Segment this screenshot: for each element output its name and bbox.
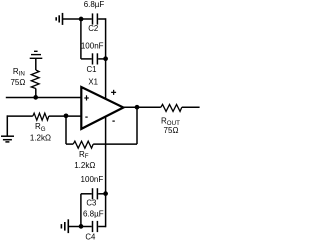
ground (top left, sideways)	[56, 13, 62, 25]
wire: positive supply stub to op-amp	[105, 59, 107, 99]
node: input junction at R_IN	[33, 95, 38, 100]
svg-text:100nF: 100nF	[81, 175, 104, 184]
wire: C3 right lead	[98, 193, 105, 195]
op-amp + supply marker	[111, 90, 116, 95]
ground (bottom left, sideways)	[61, 219, 68, 233]
wire: bottom ground to node	[68, 226, 81, 228]
svg-text:C4: C4	[85, 232, 96, 241]
wire: left rail C3 to C4	[80, 194, 82, 227]
wire: C4 right lead	[98, 226, 105, 228]
ground (above R_IN)	[30, 51, 43, 58]
resistor R_F (1.2k feedback)	[73, 141, 93, 148]
node: negative supply junction	[103, 191, 108, 196]
wire: feedback left lead	[66, 143, 73, 145]
wire: R_G to op-amp - input	[49, 115, 82, 117]
svg-text:1.2kΩ: 1.2kΩ	[74, 161, 95, 170]
node: output junction	[135, 105, 140, 110]
wire: op-amp output	[123, 106, 161, 108]
node: inverting input junction	[64, 113, 69, 118]
svg-text:75Ω: 75Ω	[164, 126, 179, 135]
wire: right rail C3 to C4	[105, 194, 107, 227]
wire: inverting input line left segment	[7, 115, 33, 117]
wire: top ground to V+ node	[63, 18, 82, 20]
wire: C1 left lead	[81, 58, 92, 60]
svg-text:6.8µF: 6.8µF	[83, 209, 104, 218]
svg-text:C2: C2	[88, 24, 98, 33]
wire: input line to op-amp + input	[6, 97, 82, 99]
wire: ground to R_IN	[35, 58, 37, 70]
node: bottom ground junction	[79, 224, 84, 229]
node: positive supply junction	[103, 56, 108, 61]
capacitor C4 plates	[93, 221, 98, 232]
ground (below R_G)	[1, 136, 14, 142]
wire: C1 right lead	[98, 58, 105, 60]
wire: C2 right lead	[98, 18, 105, 20]
svg-text:1.2kΩ: 1.2kΩ	[30, 134, 51, 143]
wire: left rail C2 to C1	[80, 19, 82, 59]
wire: drop to ground below R_G	[6, 115, 8, 136]
op-amp + input marker	[84, 95, 89, 100]
resistor R_IN (vertical 75 ohm)	[31, 70, 39, 89]
wire: feedback right segment to output drop	[93, 143, 137, 145]
wire: inverting node down to feedback	[65, 116, 67, 144]
wire: R_OUT to output terminal	[182, 106, 200, 108]
capacitor C2 plates	[93, 13, 98, 24]
op-amp - supply marker	[112, 120, 114, 122]
resistor R_OUT (75 ohm)	[161, 104, 182, 111]
svg-text:100nF: 100nF	[81, 42, 104, 51]
wire: right rail C2 to C1	[105, 18, 107, 59]
svg-text:75Ω: 75Ω	[10, 78, 25, 87]
wire: feedback drop from output node	[136, 107, 138, 144]
node: V+ top junction	[79, 17, 84, 22]
wire: C2 left lead	[81, 18, 92, 20]
wire: negative supply stub from op-amp down	[105, 117, 107, 194]
svg-text:X1: X1	[88, 78, 98, 87]
resistor R_G (1.2k)	[33, 113, 49, 120]
wire: R_IN to input line	[35, 89, 37, 98]
op-amp - input marker	[85, 116, 87, 118]
svg-text:C3: C3	[86, 199, 96, 208]
capacitor C1 plates	[93, 53, 98, 64]
wire: C3 left lead	[81, 193, 92, 195]
svg-text:C1: C1	[87, 65, 97, 74]
op-amp X1 triangle	[81, 87, 123, 129]
wire: C4 left lead	[81, 226, 92, 228]
svg-text:6.8µF: 6.8µF	[84, 0, 105, 9]
capacitor C3 plates	[93, 188, 98, 199]
